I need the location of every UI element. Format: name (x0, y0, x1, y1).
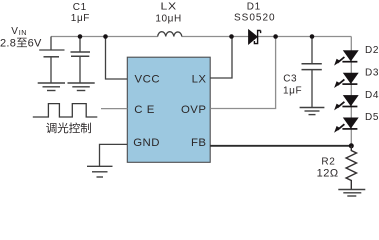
wire: LX pin branch (210, 37, 232, 79)
diode D1 (schottky SS0520) (249, 30, 261, 45)
wire: inductor to diode anode (182, 36, 249, 38)
wire: GND pin to ground (100, 144, 128, 166)
svg-text:LX: LX (192, 74, 207, 86)
LED D5 (334, 118, 358, 133)
svg-text:D1: D1 (247, 2, 261, 13)
ground (R2) (338, 190, 365, 197)
wire: PWM source to CE pin (101, 108, 127, 110)
node: FB / LED / R2 junction (349, 143, 354, 148)
capacitor Cin (input, unlabeled) (50, 37, 52, 51)
ground (input cap Cin) (38, 83, 65, 91)
resistor R2 (346, 146, 356, 190)
LED D3 (334, 73, 358, 88)
svg-text:C3: C3 (283, 73, 297, 84)
svg-text:6V: 6V (28, 37, 42, 49)
node: diode cathode junction (273, 34, 278, 39)
node: C3 junction (310, 34, 315, 39)
wire: OVP to boost output node (210, 37, 275, 109)
LED D4 (334, 95, 358, 110)
svg-text:C1: C1 (73, 2, 87, 13)
svg-text:C E: C E (134, 104, 155, 116)
inductor LX (158, 32, 182, 37)
wire: main top rail VIN to inductor (51, 36, 158, 38)
wire: VIN feed (39, 49, 64, 51)
wire: VCC branch (106, 37, 128, 80)
svg-text:GND: GND (133, 137, 160, 149)
svg-text:LX: LX (161, 1, 177, 12)
svg-text:OVP: OVP (181, 104, 207, 116)
ground (C1) (68, 83, 95, 91)
svg-text:D2: D2 (365, 45, 379, 56)
svg-text:IN: IN (19, 28, 27, 37)
svg-text:V: V (11, 26, 18, 37)
svg-text:10μH: 10μH (155, 13, 182, 24)
svg-text:12Ω: 12Ω (317, 168, 339, 180)
wire: diode cathode to LED chain corner (258, 36, 352, 38)
svg-text:1μF: 1μF (71, 13, 90, 24)
wire: LED chain vertical (350, 37, 352, 147)
node: LX branch junction (229, 34, 234, 39)
capacitor C1 (79, 37, 81, 53)
PWM dimming source waveform (33, 104, 98, 117)
label dimming control (Chinese) (46, 123, 56, 133)
ground (IC GND) (87, 166, 113, 177)
wire: FB feedback line (210, 145, 351, 147)
svg-text:1μF: 1μF (283, 85, 302, 96)
svg-text:D4: D4 (365, 90, 379, 101)
LED D2 (334, 51, 358, 66)
svg-text:D5: D5 (365, 112, 379, 123)
IC U1 body (127, 57, 210, 162)
svg-text:2.8: 2.8 (0, 37, 16, 49)
svg-text:FB: FB (191, 137, 207, 149)
capacitor C3 (311, 37, 313, 64)
node: VCC branch junction (103, 34, 108, 39)
svg-text:R2: R2 (321, 156, 335, 167)
ground (C3) (300, 108, 325, 115)
svg-text:D3: D3 (365, 67, 379, 78)
svg-text:SS0520: SS0520 (234, 12, 276, 23)
svg-text:VCC: VCC (135, 74, 161, 86)
node: VIN/C1 junction (78, 34, 83, 39)
